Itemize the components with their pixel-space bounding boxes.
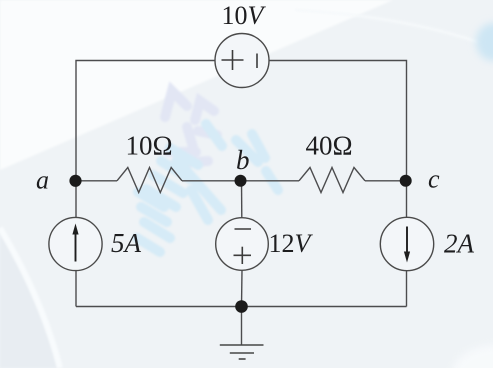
current source 5A circle bbox=[49, 217, 102, 270]
ground symbol bbox=[220, 345, 264, 359]
voltage source 10V minus terminal bbox=[256, 54, 258, 69]
svg-text:2A: 2A bbox=[444, 229, 475, 259]
svg-text:b: b bbox=[236, 145, 250, 175]
label 2A bbox=[444, 229, 475, 259]
bottom ground node junction dot bbox=[235, 300, 248, 313]
label 5A bbox=[111, 228, 142, 258]
label 10V bbox=[222, 1, 267, 30]
wire node b to resistor 40ohm bbox=[241, 180, 300, 182]
current source 2A circle bbox=[380, 217, 433, 270]
wire top left (node a rail to 10V source) bbox=[76, 61, 215, 182]
label 12V bbox=[269, 229, 314, 258]
wire resistor 40ohm to node c bbox=[365, 180, 407, 182]
node a junction dot bbox=[69, 175, 81, 187]
voltage source 10V circle bbox=[215, 34, 269, 88]
wire 2A source to bottom rail bbox=[406, 271, 408, 307]
voltage source 12V plus terminal bbox=[234, 247, 252, 264]
wire node a to resistor 10ohm bbox=[76, 180, 117, 182]
wire node b to 12V source bbox=[241, 181, 243, 218]
resistor 40ohm zigzag bbox=[299, 168, 365, 193]
wire 12V source to bottom node bbox=[241, 270, 244, 306]
wire top right (10V source to node c rail) bbox=[269, 61, 407, 182]
resistor 10ohm zigzag bbox=[117, 168, 182, 193]
svg-text:c: c bbox=[428, 165, 440, 194]
wire bottom rail bbox=[76, 306, 407, 308]
wire resistor 10ohm to node b bbox=[182, 180, 241, 182]
label node a bbox=[36, 166, 49, 195]
voltage source 12V minus terminal bbox=[235, 228, 252, 230]
node c junction dot bbox=[400, 175, 412, 187]
svg-text:5A: 5A bbox=[111, 228, 142, 258]
label node b bbox=[236, 145, 250, 175]
wire node a to 5A source bbox=[75, 181, 77, 218]
label 10ohm bbox=[126, 131, 173, 161]
current source 2A arrow bbox=[404, 227, 410, 263]
svg-text:12V: 12V bbox=[269, 229, 314, 258]
svg-text:10V: 10V bbox=[222, 1, 267, 30]
label 40ohm bbox=[306, 131, 353, 161]
wire 5A source to bottom rail bbox=[75, 271, 77, 307]
voltage source 10V plus terminal bbox=[222, 50, 244, 70]
wire node c to 2A source bbox=[406, 181, 408, 217]
svg-text:10Ω: 10Ω bbox=[126, 131, 173, 161]
svg-text:40Ω: 40Ω bbox=[306, 131, 353, 161]
current source 5A arrow bbox=[72, 224, 78, 262]
voltage source 12V circle bbox=[216, 218, 269, 271]
node b junction dot bbox=[235, 175, 247, 187]
wire ground stem bbox=[241, 307, 243, 345]
svg-text:a: a bbox=[36, 166, 49, 195]
label node c bbox=[428, 165, 440, 194]
